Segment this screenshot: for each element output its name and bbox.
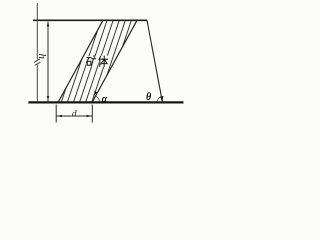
- svg-text:d: d: [72, 109, 77, 119]
- svg-text:α: α: [102, 94, 108, 105]
- svg-text:h: h: [36, 53, 48, 59]
- svg-text:θ: θ: [146, 92, 151, 103]
